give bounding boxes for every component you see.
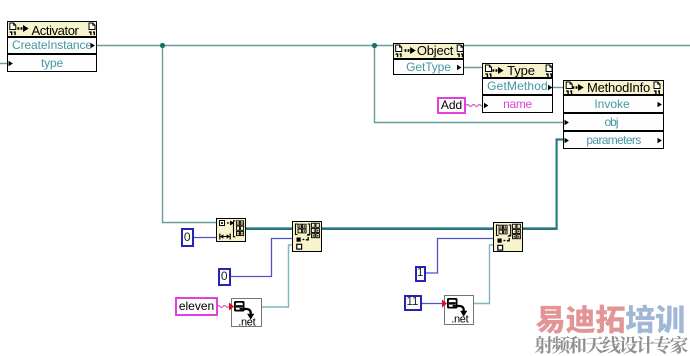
terminal arrow Invoke output	[658, 102, 662, 108]
wire string wavy: eleven to ToNet1	[217, 306, 229, 308]
wire object-array (thick) horizontal from Initialize Array through Replace nodes	[245, 227, 558, 230]
junction dot A at (162,45)	[160, 43, 165, 48]
numeric constant 0 (array size)	[181, 228, 194, 247]
terminal arrow GetType output	[457, 65, 461, 71]
icon Object header glyphs	[396, 45, 464, 57]
icon To .NET Object 1 internals	[234, 301, 256, 329]
numeric constant 11	[404, 295, 422, 312]
wire string wavy: Add to name input	[466, 105, 484, 107]
junction dot B at (374,45)	[372, 43, 377, 48]
.NET invoke node U3 Type	[482, 63, 553, 113]
watermark big text 易迪拓培训	[536, 305, 684, 334]
icon Replace Array Subset 1 internals	[296, 223, 320, 249]
string constant Add	[437, 97, 466, 114]
conversion node To .NET Object 2	[444, 295, 474, 325]
function node Replace Array Subset 2	[493, 222, 523, 252]
watermark small text 射频和天线设计专家	[535, 336, 688, 354]
wire int: constant 1 to Replace Array Subset 2 index	[426, 239, 493, 274]
wire object-array (thick) elbow up to parameters input	[557, 140, 564, 231]
wire int: constant 0 to Initialize Array size	[193, 237, 216, 239]
terminal arrow parameters output	[658, 138, 662, 144]
label MethodInfo header	[580, 80, 657, 95]
wire refnum branch 2: junction down to MethodInfo obj input	[375, 46, 565, 123]
wire .net object: ToNet1 output up to Replace 1 element input	[261, 245, 292, 307]
.NET invoke node U4 MethodInfo	[563, 80, 664, 149]
wire GetMethod output to MethodInfo	[553, 87, 563, 89]
label Activator header	[30, 23, 80, 38]
icon Activator header glyphs	[10, 23, 95, 35]
coercion arrow red at ToNet2 input	[442, 300, 447, 308]
terminal arrow CreateInstance output	[91, 43, 95, 49]
icon MethodInfo header glyphs	[566, 82, 660, 94]
numeric constant 0 (index for Replace 1)	[218, 268, 231, 286]
wire type input from left edge	[0, 63, 9, 65]
wire .net object: ToNet2 output up to Replace 2 element input	[473, 245, 493, 304]
terminal arrow name input	[484, 103, 488, 109]
terminal arrow GetMethod output	[548, 85, 552, 91]
icon Initialize Array internals	[220, 221, 244, 240]
coercion arrow red at ToNet1 input	[229, 303, 234, 311]
icon Replace Array Subset 2 internals	[497, 224, 521, 250]
terminal arrow type input	[9, 61, 13, 67]
.NET invoke node U2 Object	[393, 43, 464, 75]
wire GetType output to Type node	[464, 67, 482, 69]
wire int: constant 11 to ToNet2	[421, 303, 445, 305]
string constant eleven	[175, 297, 218, 316]
label Type header	[501, 63, 541, 78]
terminal arrow obj input	[565, 120, 569, 126]
icon To .NET Object 2 internals	[447, 298, 469, 326]
wire int: constant 0 (second) to Replace Array Subset 1 index	[230, 239, 292, 277]
wire refnum main: CreateInstance output across top to right edge	[97, 45, 690, 47]
conversion node To .NET Object 1	[231, 298, 262, 327]
icon Type header glyphs	[485, 65, 552, 77]
label Object header	[414, 43, 456, 58]
numeric constant 1 (index for Replace 2)	[415, 266, 427, 282]
function node Replace Array Subset 1	[292, 221, 322, 252]
function node Initialize Array	[216, 218, 246, 242]
wire refnum branch 1: junction down to Initialize Array	[163, 46, 217, 223]
terminal arrow parameters input	[565, 138, 569, 144]
.NET invoke node U1 Activator	[7, 21, 97, 72]
